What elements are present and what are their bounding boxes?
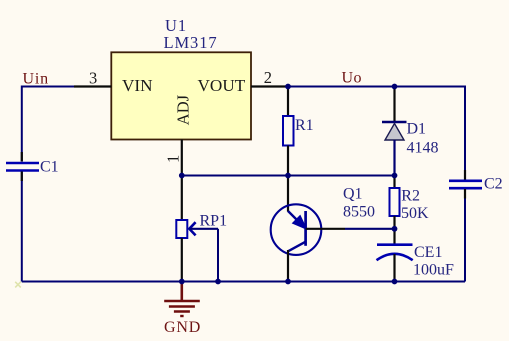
svg-text:GND: GND	[164, 319, 201, 336]
svg-text:100uF: 100uF	[413, 261, 454, 278]
node Q1 collector junction	[285, 279, 291, 285]
svg-text:Uo: Uo	[342, 70, 363, 87]
svg-text:R1: R1	[295, 117, 314, 134]
svg-text:C2: C2	[484, 176, 503, 193]
node VOUT/R1	[285, 84, 291, 90]
svg-text:ADJ: ADJ	[174, 94, 193, 125]
capacitor C2	[449, 170, 482, 199]
no-ERC marker cross	[15, 282, 21, 288]
svg-text:4148: 4148	[407, 139, 439, 156]
svg-text:Uin: Uin	[23, 70, 49, 87]
wire right vertical upper (to C2)	[464, 86, 466, 180]
capacitor CE1 (electrolytic)	[377, 229, 413, 282]
node Uo/D1	[392, 84, 398, 90]
node R2/CE1/base junction	[392, 226, 398, 232]
op-amp U1 (LM317 regulator body)	[111, 52, 251, 139]
svg-text:RP1: RP1	[200, 213, 228, 230]
wire Uin horizontal	[22, 86, 74, 88]
diode D1 (4148)	[382, 87, 407, 176]
svg-text:VIN: VIN	[122, 76, 153, 95]
node ADJ junction	[179, 173, 185, 179]
node R1 bottom junction	[285, 173, 291, 179]
node CE1 bottom junction	[392, 279, 398, 285]
svg-text:R2: R2	[401, 187, 420, 204]
wire bottom rail	[22, 281, 465, 283]
potentiometer RP1	[176, 176, 218, 282]
svg-text:C1: C1	[40, 158, 59, 175]
wire left vertical lower (C1 to bottom rail)	[21, 172, 23, 282]
resistor R1	[283, 87, 294, 176]
wire right vertical lower (C2 to bottom rail)	[464, 189, 466, 282]
node RP1 wiper junction	[215, 279, 221, 285]
svg-text:50K: 50K	[401, 205, 429, 222]
wire top rail (VOUT to right)	[286, 86, 465, 88]
pin 2 (VOUT)	[251, 85, 286, 87]
resistor R2	[390, 176, 400, 229]
svg-text:CE1: CE1	[414, 244, 442, 261]
wire left vertical upper (to C1)	[21, 86, 23, 162]
wire ADJ rail	[182, 175, 395, 177]
node GND junction	[179, 279, 185, 285]
svg-text:1: 1	[164, 155, 183, 163]
node D1/R2 junction	[392, 173, 398, 179]
svg-text:D1: D1	[407, 121, 427, 138]
pin 3 (VIN)	[74, 85, 111, 87]
svg-text:8550: 8550	[343, 204, 375, 221]
svg-text:Q1: Q1	[343, 186, 363, 203]
svg-text:VOUT: VOUT	[198, 76, 246, 95]
transistor Q1 (PNP 8550)	[271, 176, 395, 282]
ground	[164, 283, 200, 316]
capacitor C1	[6, 152, 39, 181]
svg-text:LM317: LM317	[164, 33, 218, 52]
svg-text:2: 2	[264, 68, 272, 87]
svg-text:3: 3	[89, 69, 97, 88]
pin 1 (ADJ)	[181, 140, 183, 175]
